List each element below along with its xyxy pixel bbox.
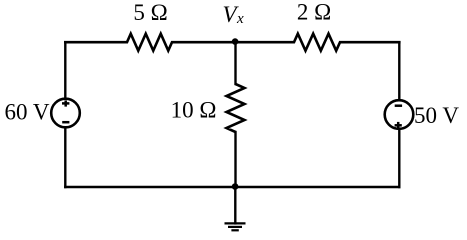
svg-text:60 V: 60 V bbox=[5, 99, 50, 124]
svg-text:x: x bbox=[236, 11, 244, 27]
svg-text:5 Ω: 5 Ω bbox=[133, 0, 167, 25]
svg-text:2 Ω: 2 Ω bbox=[297, 0, 331, 25]
svg-text:10 Ω: 10 Ω bbox=[171, 97, 217, 122]
svg-text:50 V: 50 V bbox=[414, 103, 459, 128]
